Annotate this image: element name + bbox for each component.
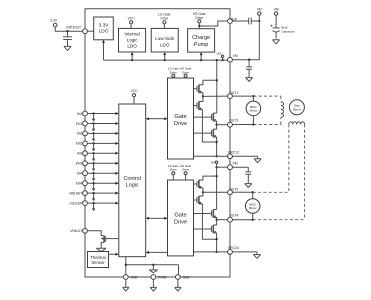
node VM supply right (274, 8, 279, 16)
svg-text:Capacitor: Capacitor (281, 30, 294, 34)
terminal LS Gate Drive above U3 (158, 13, 170, 29)
svg-text:VM: VM (217, 51, 222, 55)
wire OUT4 dashed (232, 219, 304, 221)
svg-text:SRC12: SRC12 (228, 150, 239, 154)
pin nSLEEP with pulldown and wire into Control Logic (69, 201, 118, 211)
svg-text:OUT3: OUT3 (229, 187, 238, 191)
svg-text:VCC: VCC (128, 16, 136, 20)
pin OUT3 (228, 187, 239, 194)
svg-text:Motor: Motor (249, 206, 257, 210)
svg-text:VM: VM (211, 160, 216, 164)
transistor Q6 low-side OUT3 (194, 192, 217, 239)
svg-text:OUT2: OUT2 (229, 119, 238, 123)
junction OUT3 (202, 191, 204, 193)
wire VM rail lower bridge (216, 167, 218, 209)
wire OUT1 dashed to winding (232, 96, 281, 102)
wire OUT1 line (203, 95, 228, 97)
wire bus to GND2 (178, 265, 180, 275)
terminal HS Gate Drive above U6 (180, 67, 192, 78)
svg-text:VM: VM (257, 8, 262, 12)
svg-text:IN4: IN4 (77, 171, 82, 175)
ground at Q9 source (96, 248, 106, 251)
wire OUT3 line (203, 191, 228, 193)
svg-text:Drive: Drive (161, 17, 169, 21)
junction OUT2 (215, 124, 217, 126)
svg-text:Drive: Drive (170, 168, 177, 172)
junction SRC34 sources (215, 251, 217, 253)
wire VCP to C2 (232, 20, 248, 22)
IC chip boundary (85, 9, 230, 277)
pin EN1 with pulldown and wire into Control Logic (76, 121, 119, 131)
capacitor C4 VM bypass (245, 167, 251, 183)
svg-text:Pump: Pump (194, 42, 208, 48)
ground below C1 (64, 46, 71, 50)
svg-text:nRESET: nRESET (69, 191, 82, 195)
wire SRC12 line (194, 155, 228, 157)
pin GND left (123, 275, 138, 280)
svg-text:EN4: EN4 (76, 181, 83, 185)
wire HS Gate Drive node to VCP (198, 21, 227, 29)
wire SRC12 to ground (232, 156, 257, 159)
svg-text:LDO: LDO (99, 29, 109, 35)
wire internal ground bus (125, 264, 179, 266)
svg-text:Drive: Drive (174, 121, 187, 127)
svg-text:VCC: VCC (131, 89, 139, 93)
svg-text:Low-Side: Low-Side (155, 36, 175, 41)
node VM tag lower (211, 160, 218, 168)
svg-text:VM: VM (232, 162, 237, 166)
block Gate Drive U7 (OUT3/OUT4) (168, 180, 194, 256)
pin VM mid (228, 162, 238, 170)
terminal LS Gate Drive above U7 (168, 164, 179, 180)
svg-text:Motor: Motor (293, 108, 301, 112)
block Charge Pump U4 (188, 29, 215, 52)
pin nRESET with pulldown and wire into Control Logic (69, 191, 119, 201)
wire bidirectional Control Logic to Gate Drive U7 (146, 217, 168, 220)
svg-text:PPAD: PPAD (158, 275, 167, 279)
junction OUT1 (202, 95, 204, 97)
transistor Q8 low-side OUT4 (194, 220, 218, 252)
terminal HS Gate Drive above U7 (180, 164, 192, 180)
transistor Q4 low-side OUT2 (194, 125, 218, 157)
svg-text:Charge: Charge (192, 35, 210, 41)
net label V3P3OUT (66, 25, 81, 29)
pin VM upper (228, 54, 238, 62)
svg-text:Logic: Logic (126, 182, 139, 188)
svg-text:GND: GND (183, 275, 191, 279)
wire Gate Drive U7 to Control Logic fault (146, 251, 168, 254)
block Thermal Sensor U8 (88, 252, 109, 268)
wire OUT3 dashed (232, 191, 288, 193)
svg-text:nSLEEP: nSLEEP (69, 201, 83, 205)
svg-text:IN2: IN2 (77, 132, 82, 136)
svg-text:IN3: IN3 (77, 152, 82, 156)
ground at SRC34 (253, 255, 260, 259)
ground below GND left (123, 279, 129, 291)
wire dashed winding B right to OUT4 (304, 124, 306, 219)
svg-text:VM: VM (274, 8, 279, 12)
junction VM riser (258, 20, 260, 22)
pin IN3 with pulldown and wire into Control Logic (77, 151, 119, 161)
svg-text:OUT4: OUT4 (229, 214, 238, 218)
transistor Q1 high-side OUT1 (194, 79, 218, 96)
svg-text:LDO: LDO (127, 43, 137, 48)
wire arrow into Charge Pump (200, 52, 203, 61)
wire OUT2 dashed to winding (232, 117, 281, 124)
block Gate Drive U6 (OUT1/OUT2) (168, 78, 194, 159)
pin SRC34 (228, 246, 239, 254)
pin EN2 with pulldown and wire into Control Logic (76, 141, 119, 151)
pin IN1 with pulldown and wire into Control Logic (77, 111, 119, 121)
junction OUT4 (215, 219, 217, 221)
terminal VCC above U2 (128, 16, 136, 28)
wire arrow into 3.3V LDO (102, 40, 105, 60)
capacitor C1 V3P3OUT bypass (63, 31, 72, 46)
wire Thermal Sensor to Control Logic (109, 253, 119, 256)
block Control Logic U5 (119, 104, 146, 257)
wire 3.3V terminal to V3P3OUT pin (55, 27, 85, 31)
svg-text:Logic: Logic (127, 37, 139, 42)
ground below C5 (246, 78, 253, 82)
svg-text:EN2: EN2 (76, 142, 83, 146)
svg-text:Gate: Gate (174, 213, 186, 219)
block Internal Logic LDO U2 (119, 28, 146, 52)
motor M1 BDC between OUT1 OUT2 (246, 95, 261, 126)
svg-text:IN1: IN1 (77, 112, 82, 116)
transistor Q9 open-drain fault output (101, 236, 119, 248)
wire VM mid external (232, 166, 248, 168)
svg-text:Control: Control (124, 176, 141, 182)
svg-text:EN3: EN3 (76, 162, 83, 166)
svg-text:EN1: EN1 (76, 122, 83, 126)
pin OUT2 (228, 119, 239, 127)
pin OUT1 (228, 91, 239, 98)
wire dashed winding B left to OUT3 (288, 124, 290, 192)
pin IN2 with pulldown and wire into Control Logic (77, 131, 119, 141)
svg-text:V3P3OUT: V3P3OUT (66, 25, 81, 29)
svg-text:GND: GND (131, 275, 139, 279)
svg-text:3.3V: 3.3V (99, 22, 110, 28)
motor M2 BDC between OUT3 OUT4 (245, 191, 260, 221)
svg-text:Gate: Gate (174, 114, 186, 120)
wire SRC34 to ground (232, 252, 257, 255)
terminal HS Gate Drive above U4 (193, 12, 206, 26)
wire arrow into Low-Side LDO (163, 52, 166, 61)
wire bus to PPAD with ground mark (149, 265, 157, 273)
wire Control Logic to GND1 (125, 257, 127, 275)
capacitor C3 bulk (271, 15, 280, 38)
motor M3 Step Motor (289, 100, 304, 115)
wire VM feed line (104, 59, 231, 61)
svg-text:OUT1: OUT1 (229, 91, 238, 95)
inductor L1 stepper winding A (281, 102, 284, 118)
terminal LS Gate Drive above U6 (168, 67, 179, 78)
junction V3P3OUT cap tap (66, 30, 68, 32)
transistor Q7 high-side OUT4 (194, 210, 217, 220)
capacitor C2 VCP-VM (249, 18, 260, 25)
ground below C4 (245, 184, 252, 188)
wire bidirectional Control Logic to Gate Drive U6 (146, 117, 168, 120)
capacitor C5 VM bypass upper (246, 60, 252, 78)
pin V3P3OUT (83, 29, 88, 34)
svg-text:3.3V: 3.3V (50, 19, 58, 23)
node VM supply left (257, 8, 262, 16)
pin GND right (176, 275, 191, 280)
transistor Q2 low-side OUT1 (194, 96, 217, 142)
label Bulk Capacitor (281, 26, 294, 34)
svg-text:Drive: Drive (174, 220, 187, 226)
pin EN4 with pulldown and wire into Control Logic (76, 181, 119, 191)
ground below bulk capacitor (273, 40, 280, 44)
pin nFAULT (70, 228, 87, 233)
block Low-Side LDO U3 (151, 28, 178, 52)
wire OUT2 line (217, 124, 228, 126)
transistor Q5 high-side OUT3 (194, 175, 218, 192)
svg-text:Drive: Drive (182, 168, 189, 172)
inductor L2 stepper winding B (289, 122, 305, 125)
junction VM bypass tap (248, 59, 250, 61)
pin OUT4 (228, 214, 239, 222)
svg-text:nFAULT: nFAULT (70, 229, 82, 233)
svg-text:Internal: Internal (124, 31, 139, 36)
pin EN3 with pulldown and wire into Control Logic (76, 161, 119, 171)
wire SRC34 line (194, 251, 228, 253)
ground at SRC12 (254, 159, 261, 163)
block 3.3V LDO U1 (94, 17, 114, 40)
wire VM mid into chip (217, 166, 228, 168)
wire VM rail upper bridge (216, 59, 218, 113)
pin VCP (228, 17, 238, 23)
pin SRC12 (228, 150, 239, 158)
ground below GND right (175, 279, 181, 291)
node VM tag upper (217, 51, 224, 61)
svg-text:VM: VM (233, 54, 238, 58)
svg-text:Thermal: Thermal (90, 255, 105, 260)
wire arrow into Internal Logic LDO (131, 52, 134, 61)
wire nFAULT to Q9 drain (87, 231, 104, 236)
ground below PPAD (150, 279, 156, 291)
node 3.3V supply terminal (50, 19, 58, 27)
svg-text:Sensor: Sensor (91, 260, 105, 265)
pin IN4 with pulldown and wire into Control Logic (77, 171, 119, 181)
svg-text:Motor: Motor (249, 109, 257, 113)
wire OUT4 line (217, 219, 228, 221)
junction SRC12 sources (215, 155, 217, 157)
pin PPAD (151, 275, 167, 280)
wire V3P3OUT pin to 3.3V LDO (87, 30, 93, 32)
wire VM riser down to VM pin (232, 15, 259, 59)
svg-text:SRC34: SRC34 (228, 246, 239, 250)
svg-text:LDO: LDO (160, 42, 170, 47)
transistor Q3 high-side OUT2 (194, 113, 217, 125)
terminal VCC above Control Logic (131, 89, 139, 104)
